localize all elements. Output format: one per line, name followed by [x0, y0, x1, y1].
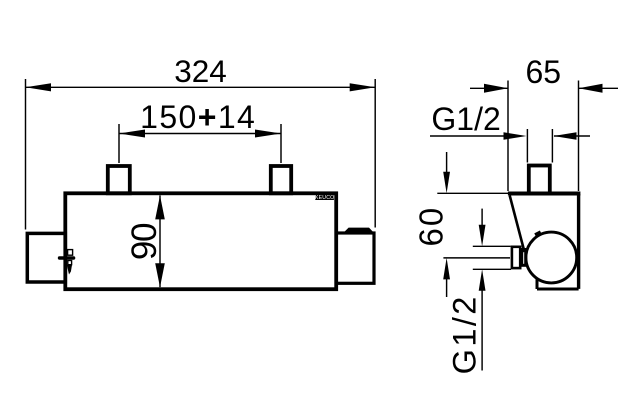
dim G1/2 top arrow left [504, 132, 527, 139]
dim G1/2 bottom tail top [481, 209, 483, 229]
top stub right front view [271, 166, 291, 193]
svg-text:KEUCO: KEUCO [315, 195, 334, 201]
dim 150+14 arrow left [119, 130, 145, 138]
dim G1/2 bottom arrow bottom [479, 269, 486, 291]
dim G1/2 top arrow right [554, 132, 577, 139]
dim 65 extension line left [507, 81, 509, 192]
dim G1/2 bottom arrow top [479, 225, 486, 247]
side body slanted left edge [510, 196, 525, 253]
control knob circle [526, 232, 577, 283]
outlet bottom extension [473, 268, 511, 270]
drain fitting bar [60, 256, 74, 259]
svg-text:150+14: 150+14 [140, 99, 256, 135]
outlet centerline [443, 257, 510, 259]
side body top edge [508, 192, 581, 196]
dim 150+14 extension line left [118, 124, 120, 163]
dim 60 tail top [446, 152, 448, 176]
drain fitting square top [68, 250, 73, 256]
svg-text:324: 324 [174, 53, 227, 89]
dim 65 arrow left [484, 84, 508, 93]
outlet nut outer [512, 247, 520, 268]
svg-text:65: 65 [526, 54, 562, 90]
dim 65 tail right [579, 87, 619, 89]
dim 65 extension line right [578, 81, 580, 192]
dim 324 arrow right [350, 83, 376, 91]
svg-text:60: 60 [412, 206, 449, 247]
dim 324 arrow left [26, 83, 52, 91]
outlet top extension [473, 245, 511, 247]
left connection block front view [27, 233, 65, 282]
side body right edge [577, 194, 580, 289]
dim 150+14 extension line right [280, 124, 282, 163]
dim 150+14 line [119, 133, 281, 135]
dim G1/2 top extension line right [551, 129, 553, 163]
body top extension left [437, 192, 508, 194]
dim 65 arrow right [579, 84, 603, 93]
dim 324 extension line left [25, 79, 27, 230]
dim 90 line [159, 195, 161, 287]
dim 90 arrow bottom [155, 263, 165, 287]
drain fitting square bottom [68, 261, 72, 265]
dim 60 arrow bottom [443, 258, 450, 280]
dim 324 extension line right [374, 79, 376, 228]
top stub left front view [108, 166, 130, 193]
dim G1/2 bottom tail [481, 287, 483, 371]
side body foot left edge [536, 279, 539, 289]
mixer body front view [65, 193, 336, 289]
right connection block front view [336, 233, 374, 283]
dim G1/2 top tail right [554, 135, 590, 137]
dim G1/2 top extension line left [526, 129, 528, 163]
svg-text:G1/2: G1/2 [447, 294, 483, 374]
dim 60 tail bottom [446, 276, 448, 297]
KEUCO label plate [315, 194, 334, 200]
dim G1/2 top tail left [430, 135, 511, 137]
dim 324 line [26, 86, 376, 88]
dim 60 arrow top [443, 172, 450, 194]
right block top cap [345, 228, 373, 232]
drain fitting wedge [67, 265, 72, 275]
dim 90 arrow top [155, 195, 165, 219]
dim 150+14 arrow right [255, 130, 281, 138]
outlet nut washer [522, 250, 526, 266]
svg-text:90: 90 [125, 223, 164, 260]
top stub side view [529, 166, 550, 194]
svg-text:G1/2: G1/2 [431, 101, 500, 137]
knob tab [535, 232, 541, 235]
dim 65 tail left [470, 87, 508, 89]
side body bottom edge [537, 288, 579, 291]
